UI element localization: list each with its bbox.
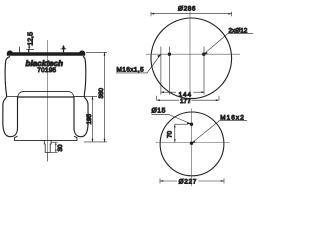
label 2xO12 xyxy=(204,33,253,54)
bottom stud xyxy=(44,140,51,161)
hole dot top O15 xyxy=(190,123,193,126)
svg-text:M16x1,5: M16x1,5 xyxy=(117,67,145,74)
piston top xyxy=(18,92,75,100)
dimension 30 xyxy=(50,142,57,152)
top view circle xyxy=(151,18,232,99)
top view vertical centerline xyxy=(189,12,191,104)
hole extension left stud xyxy=(168,47,170,95)
svg-text:12,5: 12,5 xyxy=(28,32,35,46)
top plate xyxy=(7,50,86,55)
label M16x2 xyxy=(192,121,248,144)
piston bottom plate xyxy=(15,136,78,140)
svg-text:195: 195 xyxy=(86,113,93,124)
bottom view vertical centerline xyxy=(191,109,193,187)
centerline side view xyxy=(47,40,49,161)
top view horizontal centerline xyxy=(146,53,240,55)
hole dot center M16x2 xyxy=(190,142,193,145)
dimension 144 xyxy=(161,91,205,93)
label O15 xyxy=(152,114,192,124)
bottom view horizontal centerline xyxy=(156,142,230,144)
dimension diameter 227 xyxy=(160,179,224,184)
svg-text:2xØ12: 2xØ12 xyxy=(229,27,248,34)
vent pin xyxy=(18,47,20,52)
hole extension right xyxy=(203,47,205,95)
hole extension left M16 xyxy=(160,47,162,95)
label M16x1,5 xyxy=(116,54,161,73)
bellows body xyxy=(3,56,88,137)
svg-text:30: 30 xyxy=(57,144,64,152)
stud right xyxy=(61,45,67,52)
svg-text:70: 70 xyxy=(167,130,174,138)
dimension 380 xyxy=(86,52,107,141)
hole dot right xyxy=(202,53,205,56)
svg-text:Ø227: Ø227 xyxy=(179,179,197,186)
bottom view circle xyxy=(160,112,224,176)
stud left xyxy=(26,49,34,52)
dimension 177 xyxy=(157,96,219,101)
svg-text:Ø15: Ø15 xyxy=(152,108,166,115)
bellows girdle seam xyxy=(7,95,85,97)
svg-text:177: 177 xyxy=(180,98,191,105)
svg-text:70195: 70195 xyxy=(37,67,56,74)
dimension 12,5 xyxy=(28,44,30,50)
svg-text:380: 380 xyxy=(98,87,105,98)
svg-text:M16x2: M16x2 xyxy=(220,114,245,121)
hole dot left xyxy=(168,53,171,56)
dimension 195 xyxy=(76,96,108,141)
svg-text:Ø286: Ø286 xyxy=(178,5,196,12)
dimension diameter 286 xyxy=(151,12,232,16)
dimension 70 xyxy=(174,124,188,142)
